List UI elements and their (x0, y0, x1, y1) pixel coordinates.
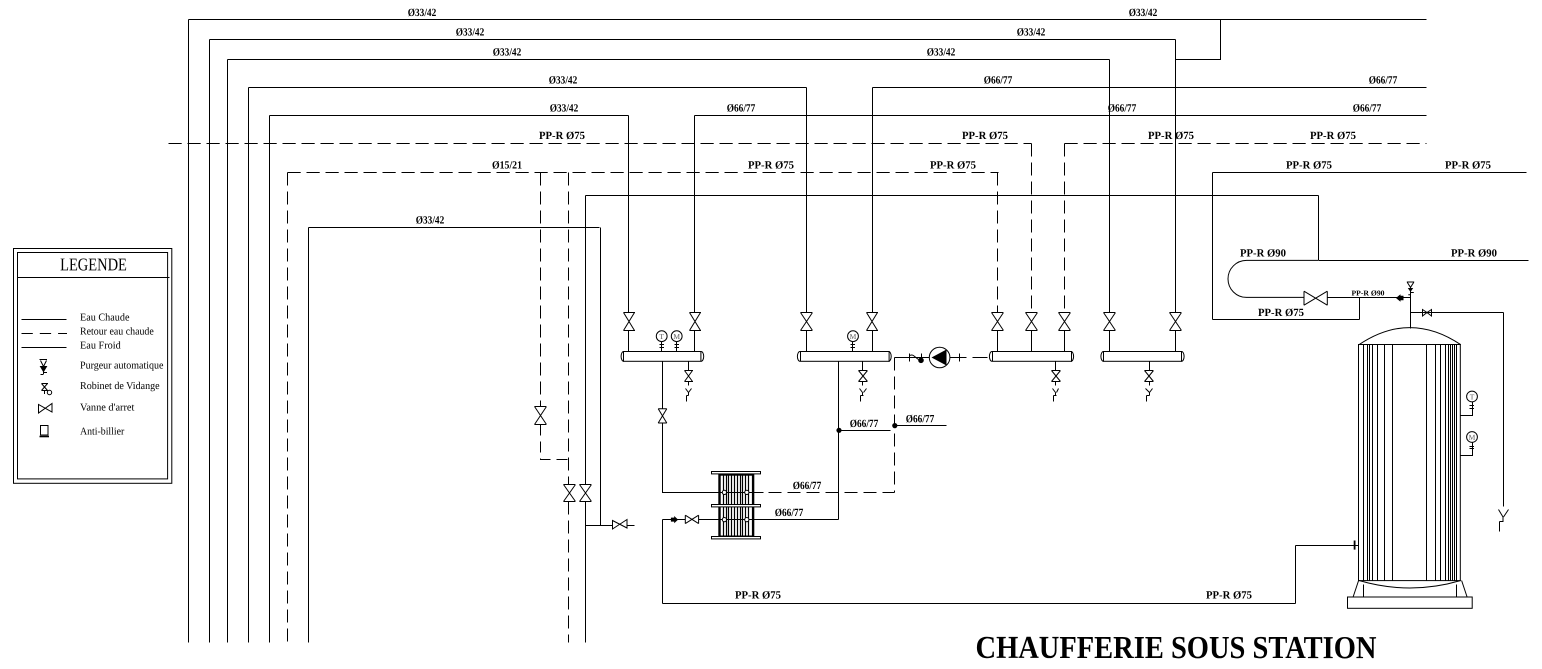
valve on dashed riser x568.5 (564, 485, 576, 502)
wire: stub Ø66/77 from x839 junction (839, 430, 891, 432)
svg-text:PP-R Ø75: PP-R Ø75 (748, 159, 794, 171)
exchanger hatch lines (724, 475, 749, 537)
wire: manifold4 right supply pipe (1175, 40, 1177, 352)
tank dome (1359, 328, 1461, 345)
svg-text:Ø66/77: Ø66/77 (850, 418, 879, 430)
valve on riser x585.5 (580, 485, 592, 502)
svg-text:PP-R Ø90: PP-R Ø90 (1240, 247, 1286, 259)
pump P1 circle (929, 347, 950, 368)
gauge M manifold1 (671, 331, 682, 352)
gauge T manifold1 (656, 331, 667, 352)
legend icon: robinet de vidange (42, 384, 52, 395)
exchanger lower port circles (722, 518, 749, 522)
svg-text:Ø66/77: Ø66/77 (793, 480, 822, 492)
wire: tank top riser x1410.3 (1410, 298, 1412, 329)
wire: manifold4 left supply pipe (1109, 60, 1111, 352)
svg-text:Ø66/77: Ø66/77 (1108, 102, 1137, 114)
svg-text:Purgeur automatique: Purgeur automatique (80, 360, 164, 371)
svg-text:PP-R Ø75: PP-R Ø75 (1148, 130, 1194, 142)
svg-text:LEGENDE: LEGENDE (60, 254, 127, 274)
svg-text:Ø33/42: Ø33/42 (550, 102, 579, 114)
wire: tank inlet pipe (1296, 545, 1359, 547)
wire: dashed return header PP-R Ø75 right part (1065, 143, 1427, 145)
valve vanne d'arret on stub y525.3 (613, 520, 628, 530)
svg-text:PP-R Ø75: PP-R Ø75 (1286, 159, 1332, 171)
exchanger lower port line (699, 519, 839, 521)
svg-text:PP-R Ø75: PP-R Ø75 (539, 130, 585, 142)
wire: dashed return header PP-R Ø75 left part (169, 143, 1032, 145)
svg-text:Eau Chaude: Eau Chaude (80, 312, 130, 323)
wire: manifold3 pipe c lower (1064, 331, 1066, 352)
svg-text:PP-R Ø75: PP-R Ø75 (1445, 159, 1491, 171)
wire: left riser 2 (209, 40, 211, 643)
wire: header 5 right segment Ø66/77 (695, 115, 1427, 117)
wire: stub y525.3 with valve (586, 525, 635, 527)
manifold 4 header bar (1101, 352, 1184, 362)
wire: solid riser x585.5 lower (585, 502, 587, 643)
wire: header 4 right segment Ø66/77 (873, 87, 1427, 89)
svg-text:Retour eau chaude: Retour eau chaude (80, 326, 154, 337)
wire: manifold2 outlet down pipe (838, 362, 840, 520)
svg-text:PP-R Ø75: PP-R Ø75 (1206, 589, 1252, 601)
tank shading stripes (1364, 345, 1393, 581)
svg-text:T: T (1470, 392, 1475, 401)
valve manifold1 outlet (658, 409, 667, 423)
svg-text:Ø33/42: Ø33/42 (416, 214, 445, 226)
wire: dashed pump discharge to manifold3 (973, 357, 988, 359)
svg-text:Ø33/42: Ø33/42 (408, 7, 437, 19)
svg-text:Vanne d'arret: Vanne d'arret (80, 402, 134, 413)
legend icon: anti-billier (40, 426, 50, 437)
svg-text:Ø66/77: Ø66/77 (727, 102, 756, 114)
exchanger upper port circles (722, 490, 749, 494)
tank skirt (1353, 581, 1467, 598)
tank shading stripes right (1427, 345, 1457, 581)
valve manifold2 left (801, 313, 813, 331)
svg-text:Ø66/77: Ø66/77 (1369, 74, 1398, 86)
wire: cold feed riser down to bottom main (662, 520, 664, 604)
legend title separator (18, 277, 170, 279)
svg-text:Ø15/21: Ø15/21 (492, 159, 522, 171)
valve vanne d'arret cold feed (685, 515, 698, 523)
wire: manifold3 pipe b dashed drop (1031, 144, 1033, 313)
flow arrow on cold feed (671, 516, 678, 523)
legend sample: retour eau chaude dashed line (22, 333, 68, 335)
exchanger body outline (720, 475, 754, 537)
wire: PP-R90 U-bend (1228, 260, 1318, 297)
wire: branch y313 to overflow (1411, 312, 1504, 314)
svg-text:Ø33/42: Ø33/42 (493, 46, 522, 58)
svg-text:M: M (1469, 433, 1476, 442)
wire: manifold1 outlet down pipe upper (662, 362, 664, 409)
wire: overflow drop x1503.4 (1503, 313, 1505, 507)
wire: solid line y196 (586, 195, 1319, 197)
valve manifold1 left (624, 313, 636, 331)
exchanger lower port inner line (719, 519, 755, 521)
exchanger bottom plate (712, 537, 761, 539)
wire: manifold3 pipe c dashed drop (1064, 144, 1066, 313)
exchanger middle plate (712, 505, 761, 507)
wire: left riser dashed return (287, 173, 289, 643)
wire: dashed return from exchanger to x894.8 (769, 492, 895, 494)
svg-text:Ø33/42: Ø33/42 (456, 26, 485, 38)
svg-text:Ø66/77: Ø66/77 (984, 74, 1013, 86)
gauge M manifold2 (848, 331, 859, 352)
wire: drop x1318 from y196 (1318, 196, 1320, 261)
drain assembly manifold3 (1052, 362, 1061, 402)
wire: cold feed corner to exchanger (663, 519, 686, 521)
wire: manifold3 pipe a lower (997, 331, 999, 352)
wire: left riser 1 (188, 20, 190, 643)
svg-text:PP-R Ø90: PP-R Ø90 (1351, 288, 1384, 297)
legend outer box (14, 249, 172, 484)
wire: manifold1 right supply pipe (694, 116, 696, 352)
wire: eau chaude header 1 Ø33/42 (189, 19, 1427, 21)
wire: Ø33/42 line y228 (309, 227, 600, 229)
wire: dashed riser x568.5 upper (568, 173, 570, 485)
pump inlet flange tick (907, 354, 930, 362)
tank base plate (1348, 597, 1473, 608)
wire: solid drop x600.4 (600, 228, 602, 526)
svg-text:PP-R Ø75: PP-R Ø75 (1310, 130, 1356, 142)
wire: solid riser x585.5 upper (585, 196, 587, 485)
legend sample: eau froid solid line (22, 347, 67, 349)
valve manifold3 c (1059, 313, 1071, 331)
valve manifold3 b (1026, 313, 1038, 331)
svg-text:M: M (850, 332, 857, 341)
svg-text:Ø33/42: Ø33/42 (1017, 26, 1046, 38)
node: junction dot on dashed riser x894.8 (892, 423, 897, 428)
gauge T tank (1461, 391, 1478, 415)
node: junction dot on x839 riser (836, 428, 841, 433)
valve on dashed drop x540.5 (535, 407, 547, 425)
wire: PP-R90 header right (1319, 260, 1529, 262)
valve vanne d'arret PP-R90 (1304, 291, 1327, 305)
tank dished bottom (1359, 581, 1461, 589)
legend inner box (18, 253, 168, 479)
svg-text:Anti-billier: Anti-billier (80, 426, 125, 437)
wire: bottom right riser to tank (1295, 546, 1297, 604)
wire: manifold1 left supply pipe (628, 116, 630, 352)
wire: dashed line Ø15/21 / PP-R Ø75 (288, 172, 999, 174)
valve manifold2 right (867, 313, 879, 331)
exchanger upper port line (719, 492, 764, 494)
drain assembly manifold2 (859, 362, 868, 402)
wire: jog from line1 down to x1175 (1176, 20, 1221, 60)
svg-text:Eau Froid: Eau Froid (80, 340, 122, 351)
flow arrow to tank (1396, 294, 1404, 302)
wire: PP-R75 run y319.5 (1213, 319, 1360, 321)
svg-text:Ø66/77: Ø66/77 (1353, 102, 1382, 114)
manifold 3 header bar (989, 352, 1073, 362)
flexible connector squiggle with dot (910, 354, 924, 364)
wire: manifold1 outlet down pipe lower to exchanger (663, 423, 719, 493)
wire: manifold3 pipe b lower (1031, 331, 1033, 352)
wire: solid PP-R Ø75 top right (1213, 172, 1527, 174)
svg-text:Ø33/42: Ø33/42 (927, 46, 956, 58)
wire: header 5 left segment Ø33/42 (270, 115, 629, 117)
manifold 2 header bar (797, 352, 891, 362)
wire: header 3 Ø33/42 (228, 59, 1110, 61)
wire: pump discharge with tick (950, 354, 967, 362)
exchanger top plate (712, 472, 761, 474)
svg-text:PP-R Ø75: PP-R Ø75 (1258, 307, 1304, 319)
svg-text:Ø33/42: Ø33/42 (1129, 7, 1158, 19)
wire: left riser 5 (269, 116, 271, 643)
wire: left riser 7 (308, 228, 310, 643)
svg-text:PP-R Ø90: PP-R Ø90 (1451, 247, 1497, 259)
drain assembly manifold1 (685, 362, 694, 402)
wire: dashed riser x894.8 pump to exchanger (894, 358, 896, 493)
wire: bottom main PP-R75 (663, 603, 1296, 605)
svg-text:Ø66/77: Ø66/77 (775, 507, 804, 519)
drain break symbol overflow (1499, 510, 1509, 532)
wire: pump suction dashed elbow (895, 357, 907, 359)
svg-text:Ø33/42: Ø33/42 (549, 74, 578, 86)
wire: manifold3 pipe a dashed drop (997, 173, 999, 313)
wire: header 2 Ø33/42 (210, 39, 1176, 41)
pump P1 impeller triangle (932, 350, 947, 366)
legend icon: vanne d'arret (39, 404, 53, 414)
wire: dashed drop x540.5 lower + elbow to x568.5 (541, 425, 569, 460)
tank body (1359, 345, 1461, 581)
svg-text:PP-R Ø75: PP-R Ø75 (735, 589, 781, 601)
drain assembly manifold4 (1145, 362, 1154, 402)
valve manifold4 left (1104, 313, 1116, 331)
wire: riser x1357 up to Ø90 line (1359, 298, 1361, 320)
manifold 1 header bar (621, 352, 704, 362)
svg-text:PP-R Ø75: PP-R Ø75 (962, 130, 1008, 142)
wire: dashed riser x568.5 lower (568, 502, 570, 643)
svg-text:M: M (673, 332, 680, 341)
svg-text:CHAUFFERIE SOUS STATION: CHAUFFERIE SOUS STATION (975, 629, 1376, 665)
legend sample: eau chaude solid line (22, 319, 67, 321)
wire: stub Ø66/77 from x894.8 junction (895, 425, 947, 427)
wire: left riser 4 (248, 88, 250, 643)
wire: dashed drop x540.5 upper (540, 173, 542, 407)
legend icon: purgeur automatique (40, 360, 48, 375)
gauge M tank (1461, 432, 1478, 456)
svg-text:T: T (659, 332, 664, 341)
wire: manifold2 right supply pipe (872, 88, 874, 352)
svg-text:Ø66/77: Ø66/77 (906, 413, 935, 425)
wire: manifold2 left supply pipe (806, 88, 808, 352)
check valve on branch y313 (1423, 310, 1432, 317)
wire: header 4 left segment Ø33/42 (249, 87, 807, 89)
purgeur automatique on tank riser (1407, 282, 1414, 298)
svg-text:PP-R Ø75: PP-R Ø75 (930, 159, 976, 171)
svg-text:Robinet de Vidange: Robinet de Vidange (80, 381, 160, 392)
wire: left riser 3 (227, 60, 229, 643)
valve manifold4 right (1170, 313, 1182, 331)
valve manifold1 right (690, 313, 702, 331)
wire: PP-R90 to tank riser (1327, 297, 1410, 299)
wire: PP-R75 drop x1212.3 (1212, 173, 1214, 320)
tank inlet flange (1354, 541, 1356, 550)
valve manifold3 a (992, 313, 1004, 331)
